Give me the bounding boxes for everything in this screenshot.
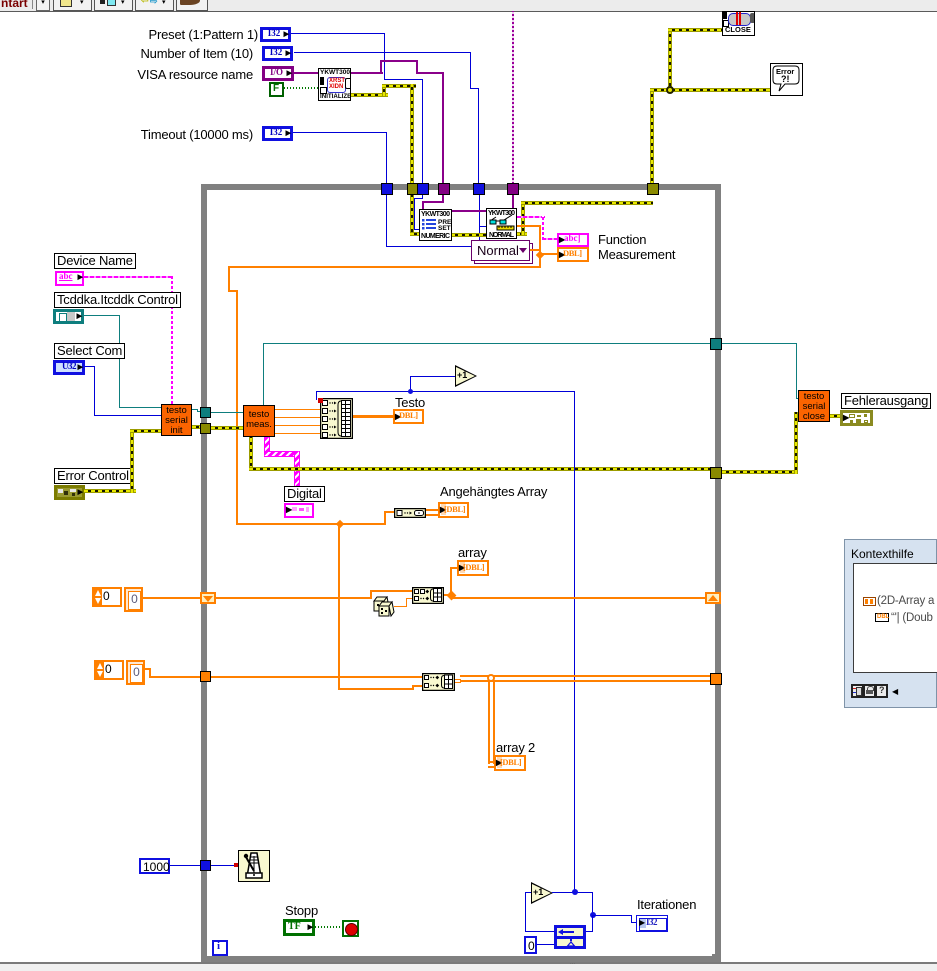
terminal I32 Timeout [262,126,293,141]
red coercion dot [318,398,323,403]
wire teal init out to tunnel [192,409,198,410]
terminal abc Device Name [55,271,84,286]
wire error testo meas down and right across loop [249,437,253,470]
wire teal testo meas top up and right to close tunnel [263,343,264,405]
label Preset [0,28,258,41]
icon YKWT300 NORMAL VI [486,208,517,239]
wire VISA purple: INITIALIZE out to tunnel4 [350,72,383,74]
wire 1000 to wait [170,865,238,866]
svg-text:YKWT300: YKWT300 [421,211,450,218]
indicator DBL Function Measurement [557,247,589,262]
wire error tunnel to close [722,470,798,474]
numeric array control row1 [92,587,122,607]
orange branch down from x339 [338,524,340,690]
tunnel olive left border [200,423,211,434]
junction circle 2D [487,674,495,682]
label Number of Item [0,47,253,60]
wire error tunnel to testo meas [211,426,244,430]
node build array 5 inputs [320,398,353,439]
tunnel teal left border [200,407,211,418]
wire to Iterationen [592,915,632,916]
tunnel olive right border [710,467,722,479]
wire teal tunnel to close [722,343,797,344]
wire error INITIALIZE out [350,93,388,97]
wire blue +1 out [552,892,593,893]
wire Preset I32 to tunnel t3 [291,33,385,34]
constant 0 [524,936,537,954]
icon YKWT300 INITIALIZE VI [318,68,351,101]
label Function Measurement [598,233,646,246]
label array 2 [496,741,535,754]
tunnel teal right border [710,338,722,350]
wire purple tunnel4 into PRESET top [442,195,444,203]
shift register left (down arrow) [200,592,216,604]
tunnel olive t2 [407,183,419,195]
svg-text:SET: SET [438,225,451,232]
wire row2 inside loop [211,676,422,678]
label Tcddka.Itcddk Control [54,292,181,308]
wire error NORMAL out to top tunnel [516,232,527,236]
wire 2D array double line out [455,679,461,683]
label Timeout [0,128,253,141]
bottom window chrome [0,962,937,964]
icon Error?! general error handler [770,63,803,96]
junction dot orange [536,251,544,259]
indicator I32 Iterationen [636,915,668,932]
toolbar fragment (top, cut off) [0,0,937,12]
wire loop bottom border [201,956,721,962]
wire pink NORMAL out to abc terminal [517,216,545,218]
wire error between VIs [451,233,486,237]
wire orange NORMAL out down to DBL [517,225,541,227]
wire orange build5 out to Testo DBL [353,415,393,418]
wire blue Select Com to init [85,366,95,367]
icon testo meas [243,405,275,437]
junction dot blue [408,389,413,394]
enum constant Normal [474,243,533,264]
wire error top right: to CLOSE and Error?! [650,90,654,185]
icon testo serial init [161,404,192,436]
indicator abc] Function [557,233,589,247]
wire error close out [830,414,841,418]
wire orange enum to junction [530,249,540,251]
wire orange long left run [228,266,541,268]
junction dots [572,889,578,895]
terminal I32 Number of Item [262,46,293,61]
wire blue tunnel3 down into PRESET vi [422,195,423,199]
constant 1000 [139,858,170,874]
wire feedback left to +1 [553,931,555,932]
numeric array control row2 [94,660,124,680]
shift register right (up arrow) [705,592,721,604]
label VISA resource name [0,68,253,81]
wire row2 control to tunnel [145,668,151,670]
wire F green dotted [284,87,318,89]
wire green dotted Stopp to button [315,926,343,928]
tunnel purple t4 [438,183,450,195]
label Stopp [285,904,318,917]
wire error tunnel2 down into PRESET [410,195,414,236]
wire VISA purple dotted vertical x=513 [512,11,514,184]
svg-text:?!: ?! [781,74,790,84]
label Select Com [54,343,125,359]
label Fehlerausgang [841,393,931,409]
red coercion dot wait [234,863,238,867]
terminal U32 Select Com [53,360,85,375]
svg-text:NORMAL: NORMAL [489,232,515,238]
wire down into feedback right [592,915,593,932]
label array [458,546,487,559]
wire loop top border [201,184,721,190]
wire pink Device Name to init [84,276,173,278]
terminal pink cluster Digital [284,503,314,518]
terminal TF Stopp [283,919,315,936]
indicator error cluster Fehlerausgang [840,410,873,426]
wire error init out to tunnel [192,425,202,429]
tunnel purple t6 [507,183,519,195]
wire teal tunnel to testo meas [211,412,244,413]
label Error Control [54,468,132,484]
label Testo [395,396,425,409]
wire 2D down to array 2 [488,681,495,764]
icon dice random [373,596,395,619]
wire teal Tcddka to init [84,315,120,316]
tunnel orange left border [200,671,211,682]
indicator DBL array 2 [494,755,526,771]
wire loop left border [201,184,207,962]
node build array 2in (upper) [412,587,444,604]
wire pink testo meas down to Digital [264,437,270,455]
wire Timeout I32 [293,132,387,133]
wire orange testo meas outputs (4) [275,409,321,410]
node append/build array single [394,508,426,518]
terminal refnum Tcddka [53,309,84,324]
wire row1 control to SR [143,597,201,599]
tunnel blue t3 [417,183,429,195]
feedback node [554,925,586,949]
tunnel blue t5 [473,183,485,195]
svg-text:NUMERIC: NUMERIC [421,233,450,240]
wire dice out [394,606,407,607]
tunnel olive error (right) [647,183,659,195]
terminal I/O VISA resource name [262,66,294,81]
wire blue tunnel1 down (timeout) [386,195,387,247]
indicator DBL array [457,560,489,576]
tunnel blue t1 [381,183,393,195]
label Device Name [54,253,136,269]
indicator DBL Testo [393,409,424,424]
wire error ErrorControl to init [84,489,136,493]
junction on error wire [666,86,674,94]
wire VISA purple: terminal to INITIALIZE [294,72,318,74]
tunnel orange right border [710,673,722,685]
blue iteration vertical x=574 [574,391,575,892]
node build array 2in (lower) [422,673,455,691]
icon wait ms metronome [238,850,270,882]
terminal I32 Preset [260,27,291,42]
wire 0 to feedback [537,944,554,945]
tunnel blue left border (1000) [200,860,211,871]
wire purple tunnel6 into NORMAL top [512,195,514,208]
icon YKWT300 PRESET NUMERIC VI [419,209,452,241]
stop button icon [342,920,359,937]
icon CLOSE VI (top right) [722,11,755,36]
iteration terminal i [212,940,228,956]
constant F boolean [269,82,284,97]
wire orange right to SR right [444,594,454,596]
wire row1 inside loop [216,597,372,599]
icon +1 increment (top) [455,365,477,387]
terminal error cluster Error Control [54,485,85,500]
wire blue tunnel5 down then into NORMAL vi [479,195,480,247]
Kontexthilfe window [844,539,937,708]
icon testo serial close [798,390,830,422]
wire double-line append to DBL [426,509,438,516]
icon +1 increment (bottom) [531,882,553,904]
label Digital [284,486,325,502]
blue iteration wire top [316,391,575,392]
junction dot orange x339 [336,520,344,528]
wire loop right border [715,184,721,954]
indicator DBL Angehängtes Array [438,502,469,518]
wire orange up to array indicator [450,567,452,593]
label Iterationen [637,898,696,911]
junction dot orange [447,591,457,601]
wire Number of Item I32 [294,52,471,53]
wire purple between VIs [451,210,486,212]
orange run to append node [236,523,386,525]
label Angehängtes Array [440,485,547,498]
